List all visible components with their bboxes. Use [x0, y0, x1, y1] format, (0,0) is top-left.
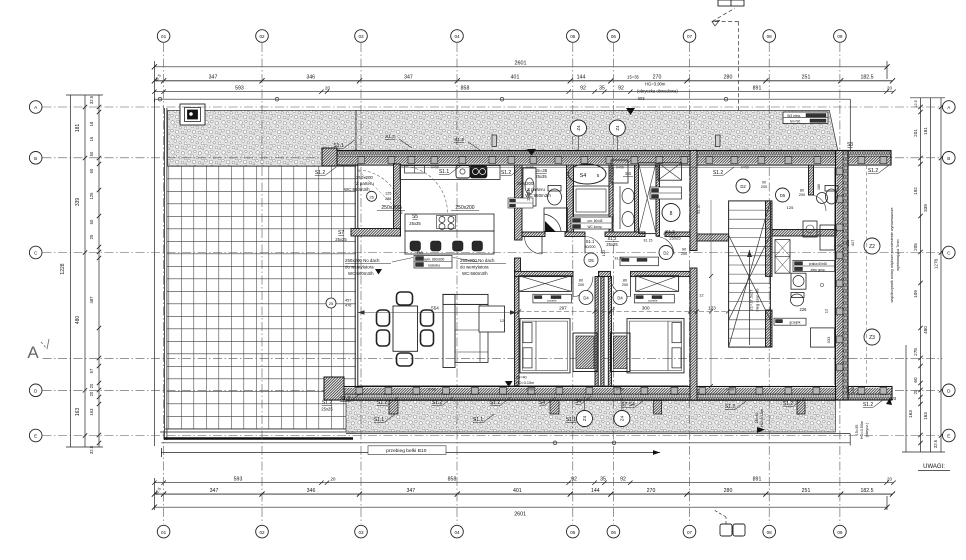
svg-text:201: 201: [913, 129, 918, 137]
toilet top-right bathroom: [817, 186, 839, 205]
svg-text:8: 8: [670, 211, 673, 217]
svg-text:Z parteru: Z parteru: [527, 187, 545, 192]
interior wall wardrobe east: [656, 165, 660, 236]
bedroom2 door: [611, 277, 631, 305]
svg-text:(obryczka obwodowa): (obryczka obwodowa): [637, 89, 678, 94]
terrace west edge double line: [155, 99, 167, 446]
interior wall bathroom 2 east: [609, 165, 613, 236]
svg-text:05: 05: [570, 530, 576, 535]
svg-text:200: 200: [761, 185, 767, 189]
svg-text:60: 60: [89, 219, 94, 224]
svg-text:współczynnik nośny większe poz: współczynnik nośny większe pozniesienie …: [890, 208, 894, 303]
bottom reference detail marker: [714, 510, 745, 536]
bottom total dimension 2601: [152, 505, 890, 518]
legend box in top band: [783, 112, 828, 124]
svg-text:250x200 No dach: 250x200 No dach: [460, 258, 495, 263]
living room glass wall (terrace east edge): [355, 162, 358, 429]
marker 25 living room: [326, 298, 351, 308]
wall type labels interior: [335, 168, 547, 242]
svg-text:12: 12: [699, 292, 704, 297]
interior wall face lines: [358, 167, 835, 385]
svg-text:60: 60: [913, 377, 918, 383]
svg-text:891: 891: [753, 85, 762, 91]
bottom dimension lines: [154, 443, 893, 510]
staircase east wall: [766, 201, 773, 347]
wall piers below south wall: [389, 401, 805, 415]
svg-text:92: 92: [571, 476, 577, 482]
svg-text:155: 155: [850, 386, 855, 393]
bedroom2 legend table: [634, 294, 674, 303]
svg-text:12: 12: [824, 308, 829, 313]
interior wall kitchen/duct vertical: [394, 164, 401, 236]
toilet hall bathroom: [791, 293, 808, 313]
svg-text:zlew gosp.: zlew gosp.: [810, 268, 825, 272]
svg-text:205: 205: [913, 243, 918, 251]
top dimension chain (347/346/347/401/144/270/280/251/182.5): [152, 72, 895, 93]
svg-text:92: 92: [620, 476, 626, 482]
svg-text:h=90: h=90: [616, 387, 623, 391]
svg-text:07: 07: [687, 530, 693, 535]
svg-text:109: 109: [913, 290, 918, 298]
svg-text:125: 125: [787, 205, 794, 210]
svg-text:25x25: 25x25: [669, 236, 681, 241]
interior wall stair hall/bath horizontal: [772, 230, 836, 237]
svg-text:280: 280: [724, 75, 733, 81]
svg-text:D5: D5: [588, 258, 594, 263]
svg-text:09: 09: [837, 530, 843, 535]
top reference detail marker W3: [712, 0, 744, 110]
svg-text:858: 858: [461, 85, 470, 91]
bottom dimension chain (593/20/858/92/35/92/891/20): [152, 476, 896, 485]
svg-text:02: 02: [259, 530, 265, 535]
svg-text:20: 20: [887, 476, 892, 481]
svg-text:HD=3.15m: HD=3.15m: [516, 381, 534, 385]
svg-text:h=90: h=90: [431, 166, 438, 170]
svg-text:grzejnik: grzejnik: [790, 321, 801, 325]
svg-text:D4: D4: [583, 296, 589, 301]
desk bottom-right room: [811, 328, 835, 347]
svg-text:90: 90: [682, 248, 686, 252]
svg-text:18: 18: [89, 121, 94, 126]
utility room top fixtures: [623, 163, 682, 255]
svg-text:D5: D5: [780, 193, 786, 198]
svg-text:347: 347: [406, 488, 415, 494]
svg-text:251: 251: [802, 488, 811, 494]
level marker living room: [505, 376, 534, 388]
corridor wall near stairs: [697, 234, 729, 241]
svg-text:04: 04: [454, 530, 460, 535]
svg-text:347: 347: [210, 488, 219, 494]
svg-text:60: 60: [89, 168, 94, 173]
svg-text:144: 144: [591, 488, 600, 494]
bottom edge line markers: [553, 441, 616, 445]
interior wall top-right bath: [809, 165, 814, 195]
svg-text:bieg szer. 90: bieg szer. 90: [755, 288, 760, 311]
svg-text:h=90: h=90: [428, 387, 435, 391]
svg-text:144: 144: [577, 75, 586, 81]
svg-text:25x25: 25x25: [335, 237, 347, 242]
interior wall bedroom2/stair hall: [690, 151, 697, 401]
horizontal grid axes A-E: [43, 107, 943, 436]
svg-text:B: B: [34, 156, 37, 161]
svg-text:347: 347: [209, 75, 218, 81]
svg-text:h=90: h=90: [526, 387, 533, 391]
svg-text:WC komp.: WC komp.: [588, 225, 603, 229]
svg-text:W3 elew.: W3 elew.: [787, 114, 801, 118]
svg-text:Z4: Z4: [576, 125, 581, 131]
terrace door swing arc: [358, 166, 448, 214]
svg-text:270: 270: [653, 75, 662, 81]
bedroom1 wardrobe: [519, 276, 572, 292]
svg-text:15=35: 15=35: [627, 75, 639, 80]
east exterior wall: [836, 151, 849, 401]
coffee table: [479, 306, 505, 332]
svg-text:554: 554: [431, 306, 439, 311]
svg-text:25=40: 25=40: [755, 413, 759, 424]
svg-text:401: 401: [513, 488, 522, 494]
svg-text:um. 60x45: um. 60x45: [588, 219, 603, 223]
svg-text:50: 50: [89, 151, 94, 156]
bottom stipple hatch band: [346, 401, 835, 433]
svg-text:HG=3.90m: HG=3.90m: [645, 82, 666, 87]
terrace tile grid: [167, 166, 356, 429]
north-west wall corner pier: [322, 148, 337, 166]
svg-text:h=90: h=90: [741, 166, 748, 170]
svg-text:480: 480: [75, 316, 81, 325]
legend table lower hall: [774, 318, 806, 325]
bedroom1 legend table: [533, 294, 572, 303]
svg-text:57: 57: [89, 368, 94, 373]
svg-text:przebieg belki B10: przebieg belki B10: [386, 448, 427, 454]
svg-text:HO=3.50m: HO=3.50m: [860, 421, 864, 439]
svg-text:181: 181: [923, 127, 928, 135]
corridor legend table: [620, 257, 659, 266]
svg-text:487: 487: [89, 296, 94, 304]
svg-text:20: 20: [913, 389, 918, 394]
svg-text:251: 251: [802, 75, 811, 81]
duct shaft walls between bedrooms: [595, 277, 612, 387]
hall wardrobe with X: [775, 240, 790, 274]
bottom annotation 25=40: [755, 409, 765, 433]
svg-text:WC:660m3/h: WC:660m3/h: [344, 187, 370, 192]
door marker D2 corridor: [659, 246, 687, 260]
right axis circles A-E: [943, 101, 956, 442]
svg-text:08: 08: [767, 34, 773, 39]
svg-text:163: 163: [89, 408, 94, 416]
svg-text:03: 03: [358, 530, 364, 535]
svg-text:192: 192: [913, 187, 918, 195]
svg-text:S4: S4: [580, 173, 587, 179]
svg-text:do wentylatora: do wentylatora: [345, 265, 374, 270]
svg-text:20: 20: [325, 85, 330, 90]
svg-text:15=35: 15=35: [535, 168, 548, 173]
svg-text:347: 347: [404, 75, 413, 81]
terrace drain/skylight symbol: [180, 104, 205, 125]
svg-text:20: 20: [887, 85, 892, 90]
frame markers in top band: [492, 135, 720, 147]
svg-text:250x200: 250x200: [455, 205, 474, 211]
svg-text:90: 90: [762, 181, 766, 185]
bedroom2 bed: [627, 319, 684, 373]
svg-text:417: 417: [850, 239, 855, 246]
svg-text:WC:660m3/h: WC:660m3/h: [348, 271, 374, 276]
svg-text:200: 200: [799, 193, 805, 197]
svg-text:W3: W3: [638, 96, 645, 101]
svg-text:333: 333: [826, 336, 831, 343]
bottom dimension chain 2 (32.5/347/346/347/401/144/270/280/251/182.5): [152, 486, 895, 497]
top axis circles 01-09: [157, 30, 846, 43]
top dimension lines: [154, 61, 893, 151]
svg-text:32.5: 32.5: [89, 445, 94, 454]
svg-text:panele: panele: [547, 299, 556, 303]
svg-text:163: 163: [923, 412, 928, 420]
hall furniture (table/chair): [803, 221, 835, 250]
staircase: [729, 201, 771, 347]
svg-text:125: 125: [89, 192, 94, 200]
bedroom internal dimension line: [517, 292, 730, 313]
Z4 markers bottom: [577, 397, 630, 427]
svg-text:226: 226: [800, 307, 808, 312]
svg-text:S1.2: S1.2: [665, 229, 675, 234]
svg-text:476: 476: [345, 304, 351, 308]
door marker D5 top-right bath: [776, 184, 827, 211]
svg-text:lodówka: lodówka: [428, 264, 440, 268]
svg-text:A: A: [27, 343, 39, 362]
svg-text:125: 125: [385, 192, 391, 196]
svg-text:401: 401: [511, 75, 520, 81]
svg-text:E1 15: E1 15: [644, 239, 653, 243]
svg-text:123: 123: [708, 305, 716, 310]
interior wall living/bath block vertical: [515, 165, 523, 386]
svg-text:HD=3.15m: HD=3.15m: [760, 409, 764, 427]
svg-text:80: 80: [623, 278, 627, 282]
interior wall between bathrooms: [567, 165, 574, 236]
svg-text:2601: 2601: [514, 511, 526, 517]
svg-text:05: 05: [570, 34, 576, 39]
svg-text:346: 346: [307, 488, 316, 494]
svg-text:15=35: 15=35: [855, 425, 859, 436]
svg-text:Z4: Z4: [619, 415, 624, 421]
svg-text:25=40: 25=40: [516, 376, 527, 380]
svg-text:WC:660m3/h: WC:660m3/h: [462, 271, 488, 276]
interior vertical dimension line: [709, 200, 713, 388]
kitchen counter along north wall with sink/hob: [400, 166, 500, 180]
vent annotations middle: [345, 258, 506, 276]
svg-text:h=90: h=90: [834, 244, 841, 248]
toilet bathroom1: [548, 186, 562, 206]
dining table with six chairs: [377, 292, 434, 366]
svg-text:20: 20: [89, 391, 94, 396]
svg-text:346: 346: [306, 75, 315, 81]
svg-text:1278: 1278: [934, 258, 939, 269]
Z2 marker: [845, 238, 880, 254]
level markers top: [375, 96, 645, 275]
bedroom2 wardrobe: [636, 276, 679, 292]
south exterior wall: [324, 387, 892, 401]
svg-text:06: 06: [611, 34, 617, 39]
entrance vestibule shafts: [573, 333, 630, 372]
svg-text:5: 5: [597, 173, 600, 178]
svg-text:32.5: 32.5: [933, 439, 938, 448]
svg-text:858: 858: [448, 476, 457, 482]
svg-text:80: 80: [800, 189, 804, 193]
svg-text:80: 80: [579, 278, 583, 282]
corridor south wall with bedroom door openings: [515, 271, 695, 276]
svg-text:182.5: 182.5: [861, 75, 874, 81]
svg-text:do wentylatora: do wentylatora: [460, 265, 489, 270]
left dimension labels: [60, 95, 101, 454]
svg-text:80/200: 80/200: [585, 245, 596, 249]
dashed reference line W3 east wing: [866, 165, 868, 386]
svg-text:2601: 2601: [515, 61, 527, 67]
svg-text:panele: panele: [648, 299, 657, 303]
top edge line markers: [158, 97, 728, 101]
svg-text:250x200: 250x200: [517, 181, 534, 186]
left axis circles A-E: [29, 101, 42, 442]
svg-text:D2: D2: [740, 184, 746, 189]
right dimension lines: [902, 98, 945, 452]
svg-text:S1.1: S1.1: [586, 239, 595, 244]
bathroom3 fixtures: [611, 160, 634, 229]
svg-text:480: 480: [923, 326, 928, 334]
svg-text:16: 16: [89, 136, 94, 141]
svg-text:20: 20: [89, 383, 94, 388]
legend table bathroom2: [571, 217, 612, 229]
svg-text:200: 200: [681, 252, 687, 256]
beam B10 reference line and label: [161, 446, 660, 457]
Z4 markers top band: [571, 120, 626, 150]
svg-text:02: 02: [259, 34, 265, 39]
svg-text:25x25: 25x25: [321, 407, 333, 412]
living room dimension line 554: [358, 306, 517, 315]
svg-text:E: E: [947, 434, 950, 439]
svg-text:250x200 No dach: 250x200 No dach: [345, 258, 380, 263]
sofa: [443, 294, 488, 367]
washbasin bathroom1: [508, 168, 536, 208]
svg-text:B: B: [947, 156, 950, 161]
S4 callout ellipse bathroom2: [568, 164, 606, 184]
svg-text:07: 07: [687, 34, 693, 39]
svg-text:D2: D2: [663, 251, 669, 256]
svg-text:E1 30: E1 30: [697, 204, 701, 213]
svg-text:32.5: 32.5: [89, 95, 94, 104]
svg-text:W3: W3: [890, 396, 897, 401]
svg-text:25x25: 25x25: [606, 242, 618, 247]
svg-text:D6: D6: [417, 251, 423, 256]
svg-text:D4: D4: [617, 296, 623, 301]
svg-text:186: 186: [817, 184, 821, 190]
svg-text:250x200: 250x200: [381, 205, 400, 211]
wall type labels top: [315, 140, 889, 176]
svg-text:08: 08: [767, 530, 773, 535]
window height labels: [428, 166, 841, 392]
svg-text:06: 06: [611, 530, 617, 535]
svg-text:12: 12: [500, 318, 505, 323]
svg-text:92: 92: [580, 85, 586, 91]
S1.2 labels in top band: [385, 134, 480, 150]
svg-text:WC:660m3/h: WC:660m3/h: [525, 193, 551, 198]
svg-text:593: 593: [234, 476, 243, 482]
svg-text:92: 92: [618, 85, 624, 91]
svg-text:hm=90: hm=90: [790, 119, 801, 123]
Z3 marker and notes: [845, 329, 897, 439]
svg-text:UWAGI:: UWAGI:: [923, 464, 945, 470]
svg-text:01: 01: [161, 530, 167, 535]
svg-text:250x200: 250x200: [356, 175, 373, 180]
svg-text:25x35: 25x35: [535, 174, 547, 179]
svg-text:122: 122: [601, 249, 606, 256]
legend table hall: [793, 260, 835, 271]
bedroom1 bed: [520, 319, 570, 373]
bottom axis circles 01-09: [157, 525, 846, 538]
svg-text:O: O: [820, 283, 824, 289]
svg-text:Z2: Z2: [869, 244, 875, 250]
top dimension chain 2 (593/20/858/92/35/92/891/20): [152, 85, 896, 94]
svg-text:Z4: Z4: [582, 415, 587, 421]
svg-text:Z parteru: Z parteru: [356, 181, 374, 186]
shower bathroom1: [525, 208, 568, 254]
svg-text:593: 593: [235, 85, 244, 91]
svg-text:26: 26: [369, 194, 374, 199]
bathroom2 door and D5 marker: [584, 237, 606, 268]
bathroom block south wall with door openings: [522, 232, 694, 237]
svg-text:25: 25: [89, 234, 94, 239]
svg-text:12.5: 12.5: [913, 99, 918, 108]
right dimension labels: [908, 99, 943, 448]
svg-text:E1 19: E1 19: [615, 257, 624, 261]
svg-text:03: 03: [358, 34, 364, 39]
washing machine: [791, 273, 829, 313]
svg-text:163: 163: [908, 410, 913, 418]
south-west wall corner pier: [324, 377, 344, 400]
svg-text:Z4: Z4: [615, 125, 620, 131]
svg-text:339: 339: [75, 198, 81, 207]
svg-text:01: 01: [161, 34, 167, 39]
svg-text:35: 35: [600, 476, 606, 482]
svg-text:wyrównująca 7mm: wyrównująca 7mm: [896, 239, 900, 270]
terrace south edge: [160, 429, 356, 439]
svg-text:09: 09: [837, 34, 843, 39]
svg-text:h=90: h=90: [616, 166, 623, 170]
svg-text:297: 297: [559, 305, 567, 310]
svg-text:181: 181: [75, 124, 81, 133]
built-in wardrobe with X: [639, 163, 657, 234]
wall type labels bottom: [321, 393, 884, 423]
section line A-A': [27, 339, 942, 362]
bedroom1 door: [573, 277, 593, 305]
top stipple hatch band (roof overhang): [168, 110, 838, 166]
svg-text:25: 25: [329, 301, 334, 306]
svg-text:300: 300: [642, 305, 650, 310]
svg-text:457: 457: [345, 299, 351, 303]
svg-text:1228: 1228: [60, 263, 66, 274]
svg-text:200: 200: [622, 283, 628, 287]
svg-text:163: 163: [75, 408, 81, 417]
UWAGI note label: [918, 464, 950, 471]
svg-text:S1.2: S1.2: [607, 236, 617, 241]
svg-text:21=17.5x27: 21=17.5x27: [749, 289, 754, 311]
interior wall wardrobe west: [635, 165, 639, 236]
left dimension lines: [66, 95, 103, 447]
svg-text:h=90: h=90: [526, 166, 533, 170]
svg-text:270: 270: [647, 488, 656, 494]
north exterior wall: [327, 151, 891, 166]
svg-text:35: 35: [599, 85, 605, 91]
svg-text:200: 200: [578, 283, 584, 287]
svg-text:04: 04: [454, 34, 460, 39]
floor finish codes: [615, 204, 701, 260]
rotated annotation right side: [890, 208, 900, 303]
